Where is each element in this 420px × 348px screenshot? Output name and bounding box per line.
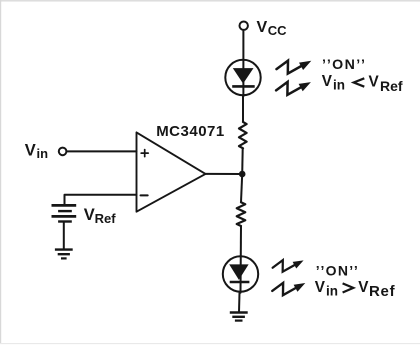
svg-text:V: V bbox=[369, 74, 380, 91]
svg-text:V: V bbox=[84, 206, 95, 224]
svg-text:Ref: Ref bbox=[95, 211, 117, 226]
svg-text:in: in bbox=[326, 283, 338, 298]
svg-text:V: V bbox=[25, 142, 36, 160]
svg-text:MC34071: MC34071 bbox=[156, 123, 225, 140]
svg-text:V: V bbox=[257, 19, 268, 36]
svg-text:V: V bbox=[358, 279, 369, 296]
svg-text:CC: CC bbox=[268, 23, 287, 38]
svg-text:Ref: Ref bbox=[380, 78, 403, 94]
svg-text:V: V bbox=[315, 279, 326, 296]
svg-text:in: in bbox=[37, 146, 49, 161]
svg-text:Ref: Ref bbox=[369, 283, 396, 300]
svg-text:V: V bbox=[322, 73, 333, 90]
svg-text:in: in bbox=[333, 78, 345, 93]
svg-text:’’ON’’: ’’ON’’ bbox=[316, 262, 359, 278]
svg-text:’’ON’’: ’’ON’’ bbox=[322, 57, 366, 73]
